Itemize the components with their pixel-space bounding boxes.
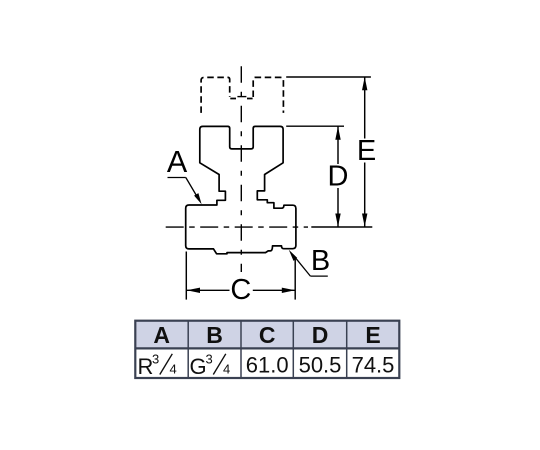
dimension E : line lower segment bbox=[364, 163, 366, 227]
leader A : diagonal bbox=[186, 178, 199, 200]
leader B : diagonal bbox=[293, 255, 310, 276]
dimension D : top extension line bbox=[286, 125, 344, 127]
vertical centerline bbox=[240, 66, 242, 272]
dimension E : line upper segment bbox=[364, 77, 366, 139]
svg-text:B: B bbox=[311, 245, 330, 277]
dimension D : line lower segment bbox=[337, 188, 339, 227]
dimension C : left arrowhead bbox=[187, 288, 200, 293]
svg-text:E: E bbox=[357, 135, 376, 167]
center cross tick bbox=[237, 96, 246, 98]
svg-text:74.5: 74.5 bbox=[352, 353, 395, 378]
table body background bbox=[135, 348, 399, 378]
value G3/4 bbox=[190, 352, 231, 380]
dimension C : right arrowhead bbox=[282, 288, 295, 293]
table values bbox=[138, 352, 395, 380]
dimension C : line right segment bbox=[253, 289, 295, 291]
svg-text:4: 4 bbox=[170, 362, 177, 377]
leader B : arrowhead bbox=[289, 250, 297, 261]
svg-text:50.5: 50.5 bbox=[299, 353, 342, 378]
phantom handle (dashed, raised position) bbox=[201, 77, 230, 113]
dimension E : top extension line bbox=[286, 76, 371, 78]
dimension D : line upper segment bbox=[337, 126, 339, 164]
svg-text:4: 4 bbox=[223, 362, 230, 377]
svg-text:E: E bbox=[365, 322, 380, 348]
svg-text:3: 3 bbox=[152, 352, 159, 367]
dimension C : line left segment bbox=[187, 289, 230, 291]
dimension E : bottom arrowhead bbox=[362, 214, 367, 227]
svg-text:A: A bbox=[153, 322, 170, 348]
svg-text:D: D bbox=[328, 160, 349, 192]
svg-text:C: C bbox=[259, 322, 276, 348]
table header labels bbox=[153, 322, 380, 348]
svg-text:A: A bbox=[167, 145, 188, 179]
svg-text:B: B bbox=[206, 322, 223, 348]
shared bottom extension line (centerline level) bbox=[311, 226, 372, 228]
value R3/4 bbox=[138, 352, 177, 380]
dimension table bbox=[135, 321, 399, 379]
table header background bbox=[135, 321, 399, 349]
dimension E : top arrowhead bbox=[362, 77, 367, 90]
dimension C : left extension line bbox=[185, 252, 187, 300]
svg-text:C: C bbox=[230, 274, 251, 306]
valve body outline (handle, bonnet, body) bbox=[186, 126, 296, 253]
dimension C : right extension line bbox=[294, 258, 296, 300]
dimension D : bottom arrowhead bbox=[335, 214, 340, 227]
svg-text:D: D bbox=[312, 322, 329, 348]
svg-text:G: G bbox=[190, 354, 207, 379]
dimension D : top arrowhead bbox=[335, 126, 340, 139]
svg-text:3: 3 bbox=[206, 352, 213, 367]
leader A : underline bbox=[168, 177, 186, 179]
svg-text:61.0: 61.0 bbox=[246, 353, 289, 378]
svg-text:R: R bbox=[138, 354, 154, 379]
leader B : underline bbox=[310, 275, 327, 277]
horizontal centerline bbox=[166, 226, 308, 228]
leader A : arrowhead bbox=[194, 193, 202, 204]
table grid bbox=[135, 321, 399, 378]
